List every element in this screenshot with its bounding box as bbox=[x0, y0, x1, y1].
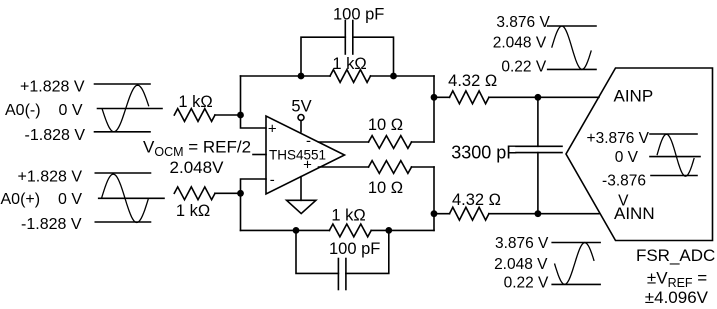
svg-text:1 kΩ: 1 kΩ bbox=[178, 93, 212, 111]
svg-text:0.22 V: 0.22 V bbox=[501, 59, 546, 76]
svg-text:-1.828 V: -1.828 V bbox=[25, 127, 86, 144]
AINN waveform annotation (bottom right) lines bbox=[552, 243, 600, 285]
AINP waveform annotation (top right) lines bbox=[548, 26, 596, 69]
svg-text:THS4551: THS4551 bbox=[269, 147, 326, 162]
svg-text:100 pF: 100 pF bbox=[333, 6, 384, 24]
wire N2 down to bottom feedback bbox=[240, 193, 242, 230]
svg-text:1 kΩ: 1 kΩ bbox=[176, 202, 210, 220]
svg-text:2.048 V: 2.048 V bbox=[494, 256, 548, 273]
node bottom feedback right bbox=[385, 227, 392, 234]
node top output junction bbox=[431, 94, 438, 101]
AINP waveform annotation sine bbox=[552, 26, 592, 69]
svg-text:4.32 Ω: 4.32 Ω bbox=[448, 72, 497, 90]
ADC FSR_ADC body bbox=[566, 68, 713, 241]
svg-text:+: + bbox=[303, 157, 312, 174]
svg-text:5V: 5V bbox=[291, 98, 311, 116]
AINP waveform annotation labels bbox=[493, 14, 551, 76]
wire right vertical bottom bbox=[433, 167, 435, 230]
wire R6 to junction bbox=[412, 166, 435, 168]
svg-text:A0(+): A0(+) bbox=[1, 191, 41, 208]
node top feedback left bbox=[298, 73, 305, 80]
node A0(+) labels bbox=[1, 168, 83, 233]
node A0(-) waveform annotation lines bbox=[95, 84, 163, 132]
resistor R7 4.32 Ohm (top) bbox=[450, 91, 489, 104]
svg-text:10 Ω: 10 Ω bbox=[368, 179, 403, 197]
ADC internal labels bbox=[587, 130, 650, 209]
resistor R8 4.32 Ohm (bottom) bbox=[450, 207, 489, 220]
svg-text:-: - bbox=[306, 132, 311, 149]
svg-text:-1.828 V: -1.828 V bbox=[21, 216, 82, 233]
wire junction to R8 bbox=[434, 213, 450, 215]
svg-text:2.048V: 2.048V bbox=[170, 158, 225, 177]
svg-text:-3.876: -3.876 bbox=[602, 173, 646, 190]
wire top feedback right bbox=[371, 75, 435, 77]
svg-text:+1.828 V: +1.828 V bbox=[20, 78, 85, 95]
svg-text:A0(-): A0(-) bbox=[5, 102, 41, 119]
svg-text:AINP: AINP bbox=[614, 87, 654, 106]
svg-text:3.876 V: 3.876 V bbox=[496, 14, 550, 31]
wire lower output bbox=[319, 166, 369, 168]
node N1 (top summing junction) bbox=[237, 112, 244, 119]
node bottom output junction bbox=[431, 210, 438, 217]
svg-text:±VREF =: ±VREF = bbox=[647, 268, 707, 290]
wire R5 to junction bbox=[412, 141, 435, 143]
resistor R5 10 Ohm (upper output) bbox=[369, 136, 412, 149]
svg-text:100 pF: 100 pF bbox=[329, 240, 380, 258]
ground bbox=[300, 177, 302, 201]
node A0(+) sine wave bbox=[102, 174, 149, 222]
capacitor C2 100 pF (bottom) branch wires bbox=[296, 230, 389, 273]
node A0(-) sine wave bbox=[102, 85, 149, 132]
wire bottom feedback left bbox=[241, 229, 330, 231]
node A0(+) waveform annotation lines bbox=[95, 173, 164, 222]
wire VOCM stub bbox=[253, 154, 266, 156]
svg-text:-: - bbox=[270, 171, 275, 188]
capacitor C2 plates bbox=[338, 259, 346, 290]
wire N1 up to top feedback bbox=[240, 76, 242, 115]
AINN waveform annotation sine bbox=[555, 243, 595, 285]
wire node N2 to op-amp - input bbox=[241, 179, 267, 193]
svg-text:0 V: 0 V bbox=[58, 102, 82, 119]
resistor R1 1 kOhm (top input) bbox=[174, 109, 215, 122]
resistor R3 1 kOhm (top feedback) bbox=[330, 70, 371, 83]
capacitor C1 100 pF (top) branch wires bbox=[301, 37, 394, 76]
node top cap junction bbox=[535, 94, 542, 101]
wire R7 to ADC AINP bbox=[489, 96, 599, 98]
node bottom cap junction bbox=[535, 210, 542, 217]
AINN waveform annotation labels bbox=[494, 235, 549, 292]
wire bottom feedback right bbox=[371, 229, 434, 231]
wire junction to R7 bbox=[434, 96, 450, 98]
svg-text:FSR_ADC: FSR_ADC bbox=[636, 246, 715, 265]
wire R2 to node bbox=[215, 192, 241, 194]
node top feedback right bbox=[390, 73, 397, 80]
svg-text:+1.828 V: +1.828 V bbox=[18, 168, 83, 185]
svg-text:VOCM = REF/2: VOCM = REF/2 bbox=[143, 137, 251, 159]
ADC internal sine bbox=[657, 134, 694, 176]
svg-text:3.876 V: 3.876 V bbox=[495, 235, 549, 252]
wire R1 to node bbox=[215, 114, 241, 116]
resistor R2 1 kOhm (bottom input) bbox=[174, 187, 215, 200]
svg-text:3300 pF: 3300 pF bbox=[451, 143, 517, 163]
svg-text:+: + bbox=[268, 120, 277, 137]
svg-text:V: V bbox=[618, 192, 629, 209]
svg-text:+3.876 V: +3.876 V bbox=[587, 130, 650, 147]
resistor R6 10 Ohm (lower output) bbox=[369, 161, 412, 174]
node N2 (bottom summing junction) bbox=[237, 190, 244, 197]
svg-text:2.048 V: 2.048 V bbox=[493, 35, 547, 52]
capacitor C3 plates bbox=[516, 146, 562, 152]
wire R8 to ADC AINN bbox=[489, 213, 599, 215]
ADC internal waveform lines bbox=[650, 134, 700, 176]
op-amp U1 THS4551 triangle bbox=[266, 116, 345, 194]
svg-text:0 V: 0 V bbox=[615, 149, 639, 166]
svg-text:0 V: 0 V bbox=[58, 191, 82, 208]
supply 5V terminal bbox=[298, 115, 304, 121]
wire upper output bbox=[319, 141, 369, 143]
svg-text:10 Ω: 10 Ω bbox=[368, 116, 403, 134]
svg-text:±4.096V: ±4.096V bbox=[645, 288, 709, 307]
node bottom feedback left bbox=[293, 227, 300, 234]
node A0(-) labels bbox=[5, 78, 85, 143]
svg-text:4.32 Ω: 4.32 Ω bbox=[452, 191, 501, 209]
svg-text:1 kΩ: 1 kΩ bbox=[331, 207, 365, 225]
resistor R4 1 kOhm (bottom feedback) bbox=[329, 224, 371, 237]
capacitor C1 plates bbox=[345, 21, 353, 55]
wire right vertical top (feedback/output junction) bbox=[433, 76, 435, 142]
capacitor C3 3300 pF vertical wires bbox=[537, 97, 539, 213]
svg-text:0.22 V: 0.22 V bbox=[504, 275, 549, 292]
wire top feedback left bbox=[241, 75, 331, 77]
wire node N1 to op-amp + input bbox=[241, 115, 267, 128]
svg-text:1 kΩ: 1 kΩ bbox=[332, 55, 366, 73]
